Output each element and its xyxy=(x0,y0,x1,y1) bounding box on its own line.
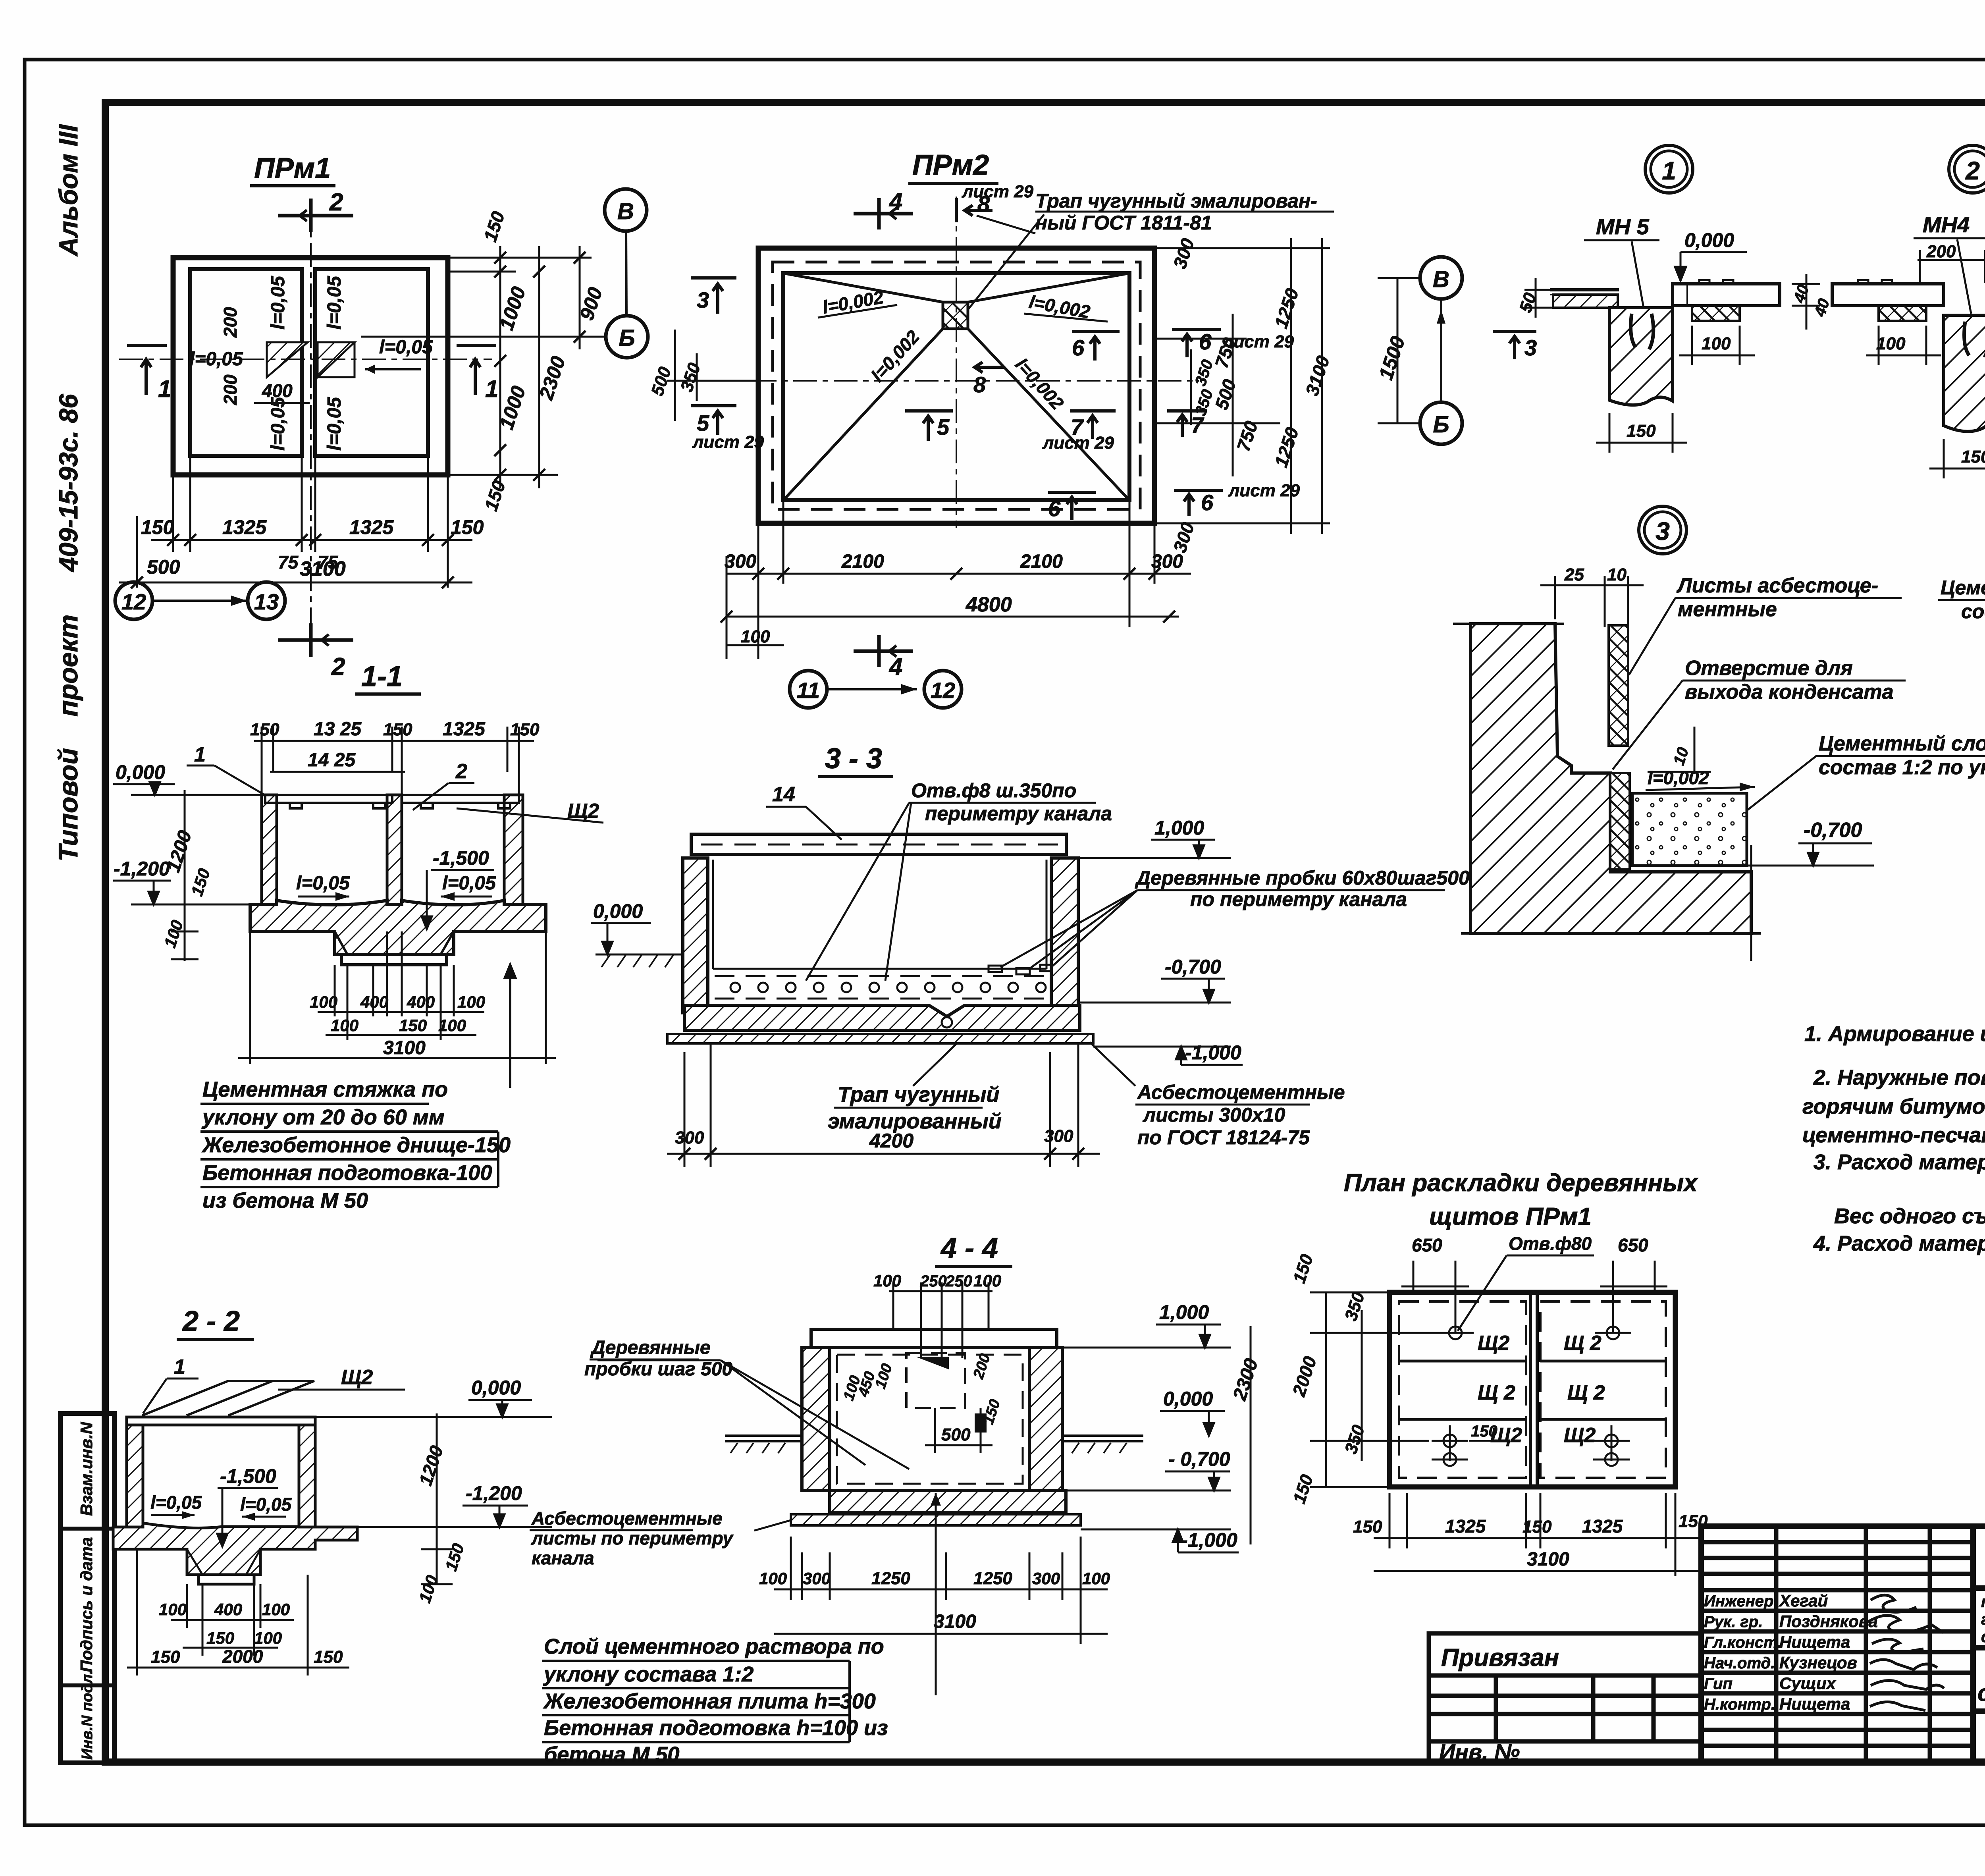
PRM2 mark 7 right xyxy=(1070,411,1116,439)
svg-text:0,000: 0,000 xyxy=(1163,1388,1213,1410)
svg-text:0,000: 0,000 xyxy=(593,900,643,922)
svg-text:-1,200: -1,200 xyxy=(114,858,170,880)
svg-text:периметру канала: периметру канала xyxy=(925,802,1112,825)
svg-text:проект: проект xyxy=(53,615,83,717)
svg-text:100: 100 xyxy=(438,1016,466,1035)
svg-text:-1,500: -1,500 xyxy=(433,847,489,869)
title block: main box xyxy=(1973,1526,1985,1762)
svg-text:6: 6 xyxy=(1201,490,1214,515)
2-2 bottom dims xyxy=(127,1549,349,1675)
svg-text:150: 150 xyxy=(1353,1517,1382,1537)
PRM1 drain slope triangles xyxy=(267,342,308,377)
signatures squiggles xyxy=(1868,1595,1944,1711)
svg-text:2: 2 xyxy=(329,189,343,216)
svg-text:лист 29: лист 29 xyxy=(1042,433,1114,453)
svg-text:100: 100 xyxy=(1876,334,1906,353)
PRM2 cut mark 8 center xyxy=(975,362,1004,372)
PRM2 cut mark 5 left xyxy=(691,406,736,435)
svg-text:лист 29: лист 29 xyxy=(692,432,764,452)
svg-text:Б: Б xyxy=(619,325,635,351)
svg-text:Привязан: Привязан xyxy=(1441,1644,1559,1672)
4-4 floor slab xyxy=(830,1490,1066,1512)
svg-text:2100: 2100 xyxy=(1020,551,1063,572)
detail 1 dims 40 40 xyxy=(1792,274,1820,330)
svg-text:выхода конденсата: выхода конденсата xyxy=(1685,681,1894,704)
svg-text:l=0,05: l=0,05 xyxy=(240,1494,292,1515)
svg-text:150: 150 xyxy=(399,1016,427,1035)
svg-text:Отв.ф8 ш.350по: Отв.ф8 ш.350по xyxy=(911,779,1076,802)
svg-text:Щ 2: Щ 2 xyxy=(1567,1381,1605,1404)
svg-text:150: 150 xyxy=(250,720,279,739)
3-3 asbestos sheet xyxy=(667,1034,1093,1043)
svg-text:1. Армирование и спецификац: 1. Армирование и спецификацию камер см. … xyxy=(1804,1022,1985,1046)
svg-text:1: 1 xyxy=(485,376,498,402)
svg-text:Гип: Гип xyxy=(1704,1675,1733,1693)
2-2 floor xyxy=(113,1523,357,1575)
general notes xyxy=(1802,1022,1985,1255)
svg-text:300: 300 xyxy=(1151,551,1183,572)
4-4 bottom dims xyxy=(774,1537,1108,1644)
4-4 notes xyxy=(543,1635,888,1766)
svg-text:Слой цементного раствора по: Слой цементного раствора по xyxy=(544,1635,884,1658)
svg-text:Н.контр.: Н.контр. xyxy=(1704,1696,1775,1713)
svg-text:-1,500: -1,500 xyxy=(220,1465,276,1487)
layout plan hole marks xyxy=(1432,1327,1631,1466)
detail 3 circle xyxy=(1639,506,1686,554)
PRM2 mark 6 upper right xyxy=(1072,332,1120,361)
svg-text:4800: 4800 xyxy=(966,593,1012,616)
svg-text:складом заполнителей: складом заполнителей xyxy=(1977,1680,1985,1706)
svg-text:бетона М 50: бетона М 50 xyxy=(544,1743,679,1766)
svg-text:Бетонная подготовка-100: Бетонная подготовка-100 xyxy=(202,1161,492,1185)
svg-text:300: 300 xyxy=(725,551,756,572)
2-2 left wall xyxy=(127,1425,143,1527)
PRM1 cut mark 1 right xyxy=(457,345,496,395)
svg-text:3 - 3: 3 - 3 xyxy=(825,743,882,775)
detail 1 right slab xyxy=(1673,280,1780,321)
detail 3 bottom edge xyxy=(1461,932,1761,935)
svg-text:400: 400 xyxy=(262,380,293,401)
svg-text:3: 3 xyxy=(1655,517,1670,546)
svg-text:100: 100 xyxy=(1702,334,1731,353)
svg-text:6: 6 xyxy=(1072,335,1085,360)
svg-text:горячим битумом за 2 раза, а: горячим битумом за 2 раза, а внутренние … xyxy=(1802,1095,1985,1118)
PRM2 cut mark 5 center xyxy=(905,411,953,441)
1-1 left wall xyxy=(262,795,277,904)
1-1 top dims xyxy=(254,727,534,794)
3-3 floor slab xyxy=(684,1005,1080,1030)
1-1 notes xyxy=(201,1078,511,1213)
svg-text:ПРм2: ПРм2 xyxy=(912,149,989,181)
2-2 pit slants xyxy=(187,1549,260,1575)
svg-text:Отверстие для: Отверстие для xyxy=(1685,657,1853,680)
detail 2 left slab xyxy=(1832,280,1944,321)
detail 2 dim 200 xyxy=(1918,250,1985,283)
svg-text:650: 650 xyxy=(1412,1235,1442,1255)
PRM1 cut mark 2 bottom xyxy=(278,623,353,657)
1-1 pit steps xyxy=(335,931,454,954)
svg-text:ный ГОСТ 1811-81: ный ГОСТ 1811-81 xyxy=(1035,212,1212,234)
svg-text:Щ2: Щ2 xyxy=(341,1366,373,1389)
svg-text:Асбестоцементные: Асбестоцементные xyxy=(531,1508,723,1529)
4-4 bottom sheet xyxy=(791,1514,1081,1525)
detail 1 left slab xyxy=(1550,290,1619,308)
1-1 bottom dims xyxy=(238,931,556,1064)
PRM1 bottom dim chain xyxy=(119,456,472,588)
PRM2 bottom dim chain xyxy=(727,500,1191,659)
svg-text:Цементная затирка: Цементная затирка xyxy=(1941,576,1985,599)
PRM2 cut mark 8 top xyxy=(956,198,992,222)
svg-text:409-15-93с. 86: 409-15-93с. 86 xyxy=(54,393,83,573)
svg-text:12: 12 xyxy=(121,589,146,614)
svg-text:2: 2 xyxy=(455,760,467,783)
svg-text:150: 150 xyxy=(1522,1517,1552,1537)
title block: staff table xyxy=(1701,1526,1973,1762)
layout plan shield labels xyxy=(1478,1332,1605,1447)
svg-text:200: 200 xyxy=(1926,242,1956,261)
svg-text:400: 400 xyxy=(407,993,435,1011)
svg-text:14: 14 xyxy=(772,783,795,806)
svg-text:Цементный слой: Цементный слой xyxy=(1819,732,1985,755)
svg-text:2: 2 xyxy=(1965,156,1980,185)
3-3 holes row xyxy=(730,983,1046,992)
project description small xyxy=(1981,1593,1985,1646)
svg-text:состав 1:2: состав 1:2 xyxy=(1961,600,1985,623)
svg-text:3100: 3100 xyxy=(934,1611,976,1632)
4-4 interior dashed xyxy=(837,1355,1023,1484)
svg-text:300: 300 xyxy=(803,1569,831,1588)
PRM2 mark 7 outside right xyxy=(1167,411,1207,437)
svg-text:2000: 2000 xyxy=(222,1646,263,1667)
detail 1 anchor squiggles xyxy=(1631,314,1654,349)
svg-text:150: 150 xyxy=(141,516,174,538)
svg-text:-1,000: -1,000 xyxy=(1185,1041,1241,1064)
svg-text:100: 100 xyxy=(741,627,770,646)
svg-text:Инженер: Инженер xyxy=(1704,1593,1773,1610)
3-3 trap circle xyxy=(942,1017,952,1028)
svg-text:200: 200 xyxy=(220,374,241,405)
svg-text:Щ2: Щ2 xyxy=(1564,1424,1596,1447)
svg-text:4. Расход материалов на дер: 4. Расход материалов на деревянные пробк… xyxy=(1813,1232,1985,1255)
svg-text:650: 650 xyxy=(1618,1235,1648,1255)
4-4 top dims xyxy=(889,1282,992,1358)
detail 3 asbestos strip upper xyxy=(1609,625,1628,746)
svg-text:150: 150 xyxy=(314,1647,343,1667)
svg-text:13 25: 13 25 xyxy=(314,719,362,740)
svg-text:5: 5 xyxy=(697,411,709,436)
4-4 small block xyxy=(975,1413,987,1433)
PRM2 dashed inner line xyxy=(773,262,1140,509)
svg-text:100: 100 xyxy=(759,1569,787,1588)
detail 3 concrete block xyxy=(1632,793,1747,866)
svg-text:4: 4 xyxy=(889,654,902,680)
axis arrow 12-13 xyxy=(153,600,247,602)
svg-text:- 0,700: - 0,700 xyxy=(1168,1448,1230,1470)
svg-text:100: 100 xyxy=(262,1600,290,1619)
svg-text:150: 150 xyxy=(151,1647,180,1667)
svg-text:МН4: МН4 xyxy=(1923,212,1970,237)
svg-text:1325: 1325 xyxy=(349,516,394,538)
svg-text:В: В xyxy=(1433,266,1449,292)
svg-text:1325: 1325 xyxy=(1445,1516,1486,1537)
svg-text:Деревянные пробки 60х80шаг500: Деревянные пробки 60х80шаг500 xyxy=(1135,867,1470,889)
axis circle B1 xyxy=(606,316,648,358)
PRM2 horizontal axis line xyxy=(672,380,1199,382)
svg-text:уклону от 20 до 60 мм: уклону от 20 до 60 мм xyxy=(201,1105,445,1129)
svg-text:150: 150 xyxy=(1627,421,1656,441)
svg-text:Железобетонная плита h=300: Железобетонная плита h=300 xyxy=(543,1689,876,1713)
svg-text:с сейсмичностью 7, 8, 9 баллов: с сейсмичностью 7, 8, 9 баллов) xyxy=(1981,1627,1985,1646)
svg-text:уклону состава 1:2: уклону состава 1:2 xyxy=(543,1662,754,1686)
svg-text:лист 29: лист 29 xyxy=(1228,481,1300,500)
svg-text:l=0,05: l=0,05 xyxy=(150,1492,202,1513)
svg-text:500: 500 xyxy=(941,1425,971,1444)
2-2 shield diagonals xyxy=(142,1381,314,1415)
svg-text:13: 13 xyxy=(254,589,279,614)
detail 1 dim 150 xyxy=(1596,413,1687,453)
svg-text:по ГОСТ 18124-75: по ГОСТ 18124-75 xyxy=(1137,1126,1310,1149)
svg-text:1,000: 1,000 xyxy=(1154,817,1204,839)
svg-text:150: 150 xyxy=(510,720,540,739)
svg-text:3100: 3100 xyxy=(300,557,346,580)
svg-text:Бетонная подготовка h=100 из: Бетонная подготовка h=100 из xyxy=(544,1716,888,1740)
4-4 asbestos leader xyxy=(754,1520,792,1531)
svg-text:l=0,05: l=0,05 xyxy=(268,276,289,330)
4-4 dim 500 xyxy=(925,1408,992,1453)
svg-text:Железобетонное днище-150: Железобетонное днище-150 xyxy=(201,1133,511,1157)
svg-text:годовой программой 200 тыс. ру: годовой программой 200 тыс. руб. (для ра… xyxy=(1981,1610,1985,1628)
3-3 left wall xyxy=(683,858,708,1013)
svg-text:Инв.N подл.: Инв.N подл. xyxy=(79,1670,96,1760)
svg-text:11: 11 xyxy=(797,678,820,703)
svg-text:Листы асбестоце-: Листы асбестоце- xyxy=(1676,574,1878,597)
svg-text:листы 300х10: листы 300х10 xyxy=(1143,1104,1285,1126)
svg-text:Нач.отд.: Нач.отд. xyxy=(1704,1654,1775,1672)
svg-text:300: 300 xyxy=(1044,1126,1073,1146)
svg-text:4200: 4200 xyxy=(869,1130,913,1152)
svg-text:150: 150 xyxy=(383,720,412,739)
1-1 pit bottom plate xyxy=(341,954,447,965)
svg-text:100: 100 xyxy=(254,1629,282,1647)
title block: attachment box xyxy=(1429,1633,1701,1762)
svg-text:эмалированный: эмалированный xyxy=(828,1109,1002,1133)
svg-text:400: 400 xyxy=(214,1600,242,1619)
svg-text:12: 12 xyxy=(931,678,955,703)
axis connector xyxy=(626,231,626,316)
svg-text:3. Расход материалов на дер: 3. Расход материалов на деревянные щиты … xyxy=(1813,1150,1985,1174)
4-4 lid xyxy=(811,1329,1057,1348)
detail 2 dim 150 xyxy=(1929,439,1985,478)
svg-text:100: 100 xyxy=(331,1016,358,1035)
layout plan grid outer xyxy=(1389,1292,1675,1487)
PRM1 right dim chain 150 1000 1000 150 xyxy=(448,246,592,488)
1-1 lids xyxy=(265,795,519,808)
PRM2 trap square xyxy=(943,302,968,329)
svg-text:ПРм1: ПРм1 xyxy=(254,152,331,184)
layout plan center double wall xyxy=(1529,1292,1532,1487)
axis circle V xyxy=(605,189,647,231)
svg-text:4 - 4: 4 - 4 xyxy=(940,1232,998,1264)
svg-text:2. Наружные поверхности изве: 2. Наружные поверхности известегасильной… xyxy=(1813,1066,1985,1089)
svg-text:5: 5 xyxy=(937,415,950,440)
detail 2 pier xyxy=(1944,315,1985,432)
svg-text:6: 6 xyxy=(1048,496,1061,521)
axis circle 13 xyxy=(248,582,285,619)
4-4 dim 2300 xyxy=(1250,1326,1252,1544)
PRM2 trap leader xyxy=(965,214,1044,314)
layout plan cell lines xyxy=(1399,1361,1666,1419)
svg-text:цементно-песчаным раствором: цементно-песчаным раствором состава 1:1 … xyxy=(1802,1123,1985,1147)
svg-text:Рук. гр.: Рук. гр. xyxy=(1704,1613,1763,1631)
PRM1 cut mark 1 left xyxy=(127,345,167,395)
2-2 right vertical dims xyxy=(421,1413,453,1584)
PRM1 center cut line 2-2 xyxy=(310,202,312,657)
svg-text:150: 150 xyxy=(1471,1423,1497,1440)
PRM2 center cut line 8 xyxy=(956,197,957,528)
svg-text:0,000: 0,000 xyxy=(116,761,165,783)
svg-text:0,000: 0,000 xyxy=(471,1377,521,1399)
svg-text:3: 3 xyxy=(1524,335,1537,360)
svg-text:2 - 2: 2 - 2 xyxy=(182,1305,240,1337)
svg-text:-1,200: -1,200 xyxy=(466,1482,522,1504)
3-3 right wall xyxy=(1051,858,1078,1013)
layout plan bottom dims xyxy=(1374,1493,1699,1576)
PRM2 mark 6 lower xyxy=(1048,492,1096,520)
svg-text:производственная база ремстрой: производственная база ремстройучастка с xyxy=(1981,1593,1985,1611)
svg-text:Трап чугунный эмалирован-: Трап чугунный эмалирован- xyxy=(1035,190,1317,212)
PRM1 left cell xyxy=(190,269,302,456)
axis circle 12b xyxy=(924,671,962,708)
svg-text:1325: 1325 xyxy=(1582,1516,1623,1537)
4-4 left wall xyxy=(802,1348,830,1490)
svg-text:500: 500 xyxy=(147,556,180,578)
PRM2 right dim chains xyxy=(1154,238,1330,534)
svg-text:Подпись и дата: Подпись и дата xyxy=(77,1537,96,1672)
PRM2 left dims 500 350 xyxy=(667,330,758,421)
svg-text:250: 250 xyxy=(920,1273,947,1290)
svg-text:Цементная стяжка по: Цементная стяжка по xyxy=(202,1078,448,1101)
svg-text:300: 300 xyxy=(675,1128,704,1147)
svg-text:канала: канала xyxy=(532,1548,594,1568)
PRM1 row line to B xyxy=(361,336,606,338)
svg-text:Альбом III: Альбом III xyxy=(54,124,83,257)
svg-text:150: 150 xyxy=(206,1629,234,1647)
layout plan left dims xyxy=(1310,1292,1445,1487)
layout plan top dims xyxy=(1401,1261,1667,1333)
svg-text:75: 75 xyxy=(278,552,299,573)
cut mark 3 near axis xyxy=(1493,332,1536,359)
svg-text:1-1: 1-1 xyxy=(361,661,403,692)
1-1 right wall xyxy=(504,795,523,926)
svg-text:Щ 2: Щ 2 xyxy=(1478,1381,1515,1404)
svg-text:ментные: ментные xyxy=(1678,598,1777,621)
svg-text:2100: 2100 xyxy=(841,551,884,572)
svg-text:Взам.инв.N: Взам.инв.N xyxy=(77,1421,96,1516)
svg-text:l=0,05: l=0,05 xyxy=(268,397,289,451)
svg-text:-0,700: -0,700 xyxy=(1165,956,1221,978)
svg-text:l=0,05: l=0,05 xyxy=(379,337,433,358)
svg-text:0,000: 0,000 xyxy=(1684,229,1734,251)
svg-text:10: 10 xyxy=(1607,565,1627,584)
axis circles V2 B2 xyxy=(1420,257,1462,299)
3-3 bottom dims xyxy=(667,1043,1100,1167)
svg-text:Трап чугунный: Трап чугунный xyxy=(838,1083,999,1107)
1-1 left vertical dims xyxy=(171,790,198,961)
svg-text:Сущих: Сущих xyxy=(1779,1674,1837,1693)
svg-text:1: 1 xyxy=(158,376,171,402)
PRM2 cut mark 3 left xyxy=(691,278,736,314)
svg-text:Кузнецов: Кузнецов xyxy=(1779,1653,1857,1672)
svg-text:Типовой: Типовой xyxy=(53,748,83,862)
axis arrow 11-12 xyxy=(828,688,917,690)
detail 1 dim 50 xyxy=(1524,278,1552,318)
svg-text:8: 8 xyxy=(977,191,990,216)
svg-text:Хегай: Хегай xyxy=(1779,1591,1828,1610)
2-2 pit bottom plate xyxy=(198,1575,254,1584)
svg-text:8: 8 xyxy=(973,372,986,397)
detail 1 circle xyxy=(1645,145,1693,193)
svg-text:100: 100 xyxy=(873,1271,901,1290)
svg-text:Вес одного съемного щита —: Вес одного съемного щита — 20 кг. xyxy=(1834,1204,1985,1228)
svg-text:14 25: 14 25 xyxy=(308,750,356,771)
detail 1 pier xyxy=(1609,308,1673,405)
svg-text:l=0,05: l=0,05 xyxy=(324,276,345,330)
svg-text:-0,700: -0,700 xyxy=(1804,819,1862,842)
PRM2 inner wall xyxy=(783,273,1129,500)
svg-text:1250: 1250 xyxy=(871,1569,910,1588)
4-4 trap hatched corner xyxy=(915,1357,949,1369)
svg-text:Асбестоцементные: Асбестоцементные xyxy=(1137,1081,1345,1103)
svg-text:План раскладки деревянных: План раскладки деревянных xyxy=(1344,1169,1698,1197)
svg-text:по периметру канала: по периметру канала xyxy=(1190,888,1407,910)
layout plan inner frames xyxy=(1399,1301,1526,1478)
staff names column2 xyxy=(1779,1591,1878,1713)
svg-text:-1,000: -1,000 xyxy=(1181,1529,1237,1551)
axis circle 12 xyxy=(115,582,152,619)
detail 2 circle xyxy=(1949,145,1985,193)
svg-text:1: 1 xyxy=(194,743,206,766)
3-3 inner lining xyxy=(713,860,1046,969)
detail 3 wall top line xyxy=(1453,623,1564,625)
detail 3 wall mass xyxy=(1470,624,1751,933)
svg-text:100: 100 xyxy=(310,993,337,1011)
svg-text:Щ 2: Щ 2 xyxy=(1564,1332,1601,1355)
1-1 center wall xyxy=(387,795,402,908)
svg-text:150: 150 xyxy=(1961,447,1985,467)
3-3 wood plugs xyxy=(989,965,1052,974)
left stamp strip xyxy=(60,1413,114,1763)
svg-text:l=0,05: l=0,05 xyxy=(324,397,345,451)
PRM2 cut mark 4 top xyxy=(854,198,913,229)
PRM2 cut mark 4 bottom xyxy=(854,635,913,667)
svg-text:состав 1:2 по уклону: состав 1:2 по уклону xyxy=(1819,756,1985,779)
svg-text:l=0,002: l=0,002 xyxy=(1648,767,1709,788)
svg-text:Щ2: Щ2 xyxy=(1478,1332,1509,1355)
PRM1 right cell xyxy=(315,269,428,456)
svg-text:МН 5: МН 5 xyxy=(1596,214,1650,239)
svg-text:Нищета: Нищета xyxy=(1779,1695,1850,1713)
svg-text:3100: 3100 xyxy=(1527,1549,1569,1570)
PRM1 cut mark 2 top xyxy=(278,199,353,232)
svg-text:листы по периметру: листы по периметру xyxy=(531,1528,734,1548)
svg-text:1325: 1325 xyxy=(443,719,486,740)
svg-text:1: 1 xyxy=(174,1355,185,1379)
PRM2 roof diagonals xyxy=(783,273,1129,500)
4-4 ground lines xyxy=(725,1436,1143,1453)
PRM1 cut line 1-1 xyxy=(119,359,492,360)
detail 2 anchor squiggles xyxy=(1964,322,1985,357)
2-2 lid xyxy=(127,1417,315,1425)
